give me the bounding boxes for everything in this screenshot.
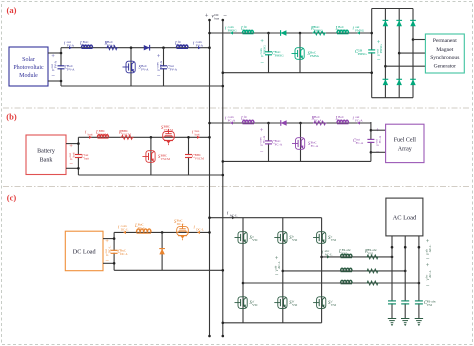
svg-text:batt: batt [71,152,75,157]
transistor S_VSI b top IGBT [278,232,287,244]
diode rectifier bottom 2 [396,79,401,85]
transistor S_VSCM BBC upper IGBT [163,132,175,141]
svg-text:AC-L: AC-L [277,261,281,269]
diode rectifier bottom 3 [410,79,415,85]
capacitor C_FC-A BoC [268,141,270,143]
capacitor C_batt out [78,155,80,157]
wire FC top rail [210,122,371,124]
wire phase b line [282,270,285,273]
capacitor C_FC-A out [370,140,372,142]
wire battery cap leg [188,137,190,175]
label i_AC-L [227,212,237,218]
wire buck diode leg [161,231,164,234]
inductor L_FC-A BoC [337,120,349,123]
wire PMSG phase c tap [384,65,387,68]
svg-text:VSCM: VSCM [99,132,108,136]
wire DC load bottom terminal [103,262,114,264]
wire battery switch leg [150,136,153,139]
svg-text:PV-A: PV-A [196,43,204,47]
svg-text:Array: Array [398,147,412,153]
wire battery top terminal [66,143,78,145]
wire rectifier top bar [372,8,413,10]
resistor R_PMSG BoC [313,31,327,35]
box Permanent Magnet Synchronous Generator [425,34,464,73]
transistor S_PMSG BoC IGBT [295,48,304,60]
svg-text:+: + [157,53,161,60]
svg-text:FC-A: FC-A [244,118,252,122]
diode PV boost [144,45,150,50]
wire inverter leg c [321,218,323,323]
wire AC load column a [391,236,393,319]
svg-text:−: − [426,283,430,290]
capacitor C_PV-A out [163,66,165,68]
wire rectifier leg 1 [384,9,386,98]
svg-text:bus: bus [214,16,219,20]
inductor L_PV-A fil [177,45,189,48]
label i_batt bus [192,129,200,137]
svg-text:−: − [275,272,279,279]
inductor L_VSCM BBC [98,135,109,138]
svg-text:FC-A: FC-A [262,135,266,143]
svg-text:Solar: Solar [22,57,35,63]
wire FC box bottom terminal [371,151,386,153]
transistor S_VSI b' bottom IGBT [278,297,287,309]
wire DC load input column [113,232,115,270]
box AC Load [386,198,423,236]
svg-text:+: + [205,13,209,20]
capacitor C_PMSG GB [371,50,373,52]
wire inverter leg b [282,218,284,323]
svg-text:DC-L: DC-L [107,246,111,254]
wire inverter top rail [210,217,322,219]
label i_DC-L conv [118,224,128,232]
transistor S_VSI c' bottom IGBT [317,297,326,309]
svg-text:PMSG: PMSG [244,28,254,32]
svg-text:−: − [260,60,264,67]
svg-text:FC-A: FC-A [228,118,236,122]
wire battery bottom terminal [66,167,78,169]
svg-text:Bank: Bank [40,158,53,164]
svg-text:VSI: VSI [331,303,336,307]
resistor R_PV-A BoC [106,46,118,50]
svg-text:FC-A: FC-A [311,144,319,148]
wire FC bottom rail [223,160,371,162]
label C_VSI Fil-abc [424,299,437,307]
svg-text:+: + [105,238,109,245]
transistor S_DC-L BuC IGBT [177,227,189,236]
inductor L_PV-A BoC [82,45,93,48]
svg-text:VSCM: VSCM [164,128,173,132]
svg-text:AC-L: AC-L [230,213,238,217]
svg-text:+: + [275,255,279,262]
svg-text:−: − [69,161,73,168]
svg-text:FC-A: FC-A [314,118,322,122]
node DC bus positive rail [209,20,211,336]
transistor S_VSI c top IGBT [317,232,326,244]
label R_VSI Fil-abc [364,248,378,256]
svg-text:VSI: VSI [252,303,257,307]
svg-text:PMSG: PMSG [338,28,348,32]
diode rectifier top 3 [410,20,415,26]
wire PV bottom rail [61,85,223,87]
transistor S_VSI a' bottom IGBT [238,297,247,309]
svg-text:DC-L: DC-L [120,252,128,256]
wire AC load column c [418,236,420,319]
svg-text:PV-A: PV-A [178,43,186,47]
resistor R_VSCM BBC [121,135,134,139]
svg-text:VSI: VSI [342,251,347,255]
svg-text:DC-L: DC-L [121,227,129,231]
svg-text:AC-L: AC-L [428,270,432,278]
label L_VSI Fil-abc [338,248,352,256]
svg-text:FC-A: FC-A [338,118,346,122]
svg-text:(a): (a) [7,5,17,15]
svg-text:−: − [51,73,55,80]
svg-text:VSCM: VSCM [122,132,131,136]
svg-text:PV-A: PV-A [159,60,163,68]
wire PV switch leg [130,46,133,49]
wire PMSG conv cap leg [267,32,270,35]
wire PV input column [60,48,62,86]
svg-text:FC-A: FC-A [355,118,363,122]
label i_FC-A conv [225,115,236,123]
box DC Load [65,231,103,271]
wire PV box top terminal [48,52,61,54]
svg-text:PV-A: PV-A [107,43,115,47]
svg-text:Battery: Battery [37,149,55,155]
svg-text:+: + [260,38,264,45]
label i_batt [85,131,93,137]
svg-text:DC-L: DC-L [177,222,185,226]
label i_FC-A out [353,115,364,123]
box Battery Bank [26,135,66,175]
wire rectifier bottom bar [372,97,413,99]
capacitor C_PV-A input with label [60,66,62,68]
svg-text:PMSG: PMSG [262,45,266,55]
wire inverter bottom rail [223,322,322,324]
resistor R_FC-A BoC [313,121,327,125]
wire rectifier left column [371,9,373,98]
svg-text:PMSG: PMSG [310,54,320,58]
resistor R_VSI fil phase a [366,255,379,259]
svg-text:AC-L: AC-L [325,252,333,256]
resistor R_VSI fil phase c [366,281,379,285]
svg-text:PV-A: PV-A [170,67,178,71]
svg-text:AC Load: AC Load [393,215,417,222]
label i_PMSG out [353,25,365,33]
label i_PV-A out [64,40,75,48]
wire PMSG phase a tap [412,38,415,41]
wire battery top rail [78,136,209,138]
wire PMSG bottom rail [223,72,372,74]
svg-text:PMSG: PMSG [314,28,324,32]
diode rectifier top 2 [396,20,401,26]
svg-text:−: − [377,57,381,64]
inductor L_PMSG BoC [337,30,349,33]
svg-text:+: + [426,238,430,245]
capacitor C_VSI filter b [404,301,406,303]
svg-text:+: + [51,53,55,60]
transistor S_VSCM BBC lower IGBT [146,151,155,163]
svg-text:−: − [223,13,227,20]
wire FC input column [370,122,372,161]
svg-text:DC-L: DC-L [196,227,204,231]
svg-text:VSI: VSI [292,303,297,307]
svg-text:VSI: VSI [331,238,336,242]
svg-text:batt: batt [84,156,89,160]
svg-text:VSI: VSI [292,238,297,242]
wire rectifier leg 3 [412,9,414,98]
wire PMSG switch leg [299,32,302,35]
capacitor C_VSCM BBC [188,155,190,157]
inductor L_VSI fil phase b [341,268,352,271]
label i_PMSG conv [225,25,237,33]
inductor L_PMSG fil [243,30,254,33]
svg-text:PV-A: PV-A [53,60,57,68]
inductor L_VSI fil phase a [341,254,352,257]
wire DC load top rail [114,231,209,233]
wire battery input column [77,137,79,175]
svg-text:Module: Module [19,73,38,79]
svg-text:Magnet: Magnet [436,47,454,53]
section separator a/b [3,107,471,109]
transistor S_FC-A BoC IGBT [296,138,305,150]
svg-text:PMSG: PMSG [379,44,383,54]
wire phase c line [242,282,245,285]
box Fuel Cell Array [386,124,424,162]
svg-text:PMSG: PMSG [358,52,368,56]
inductor L_DC-L BuC [137,229,152,232]
capacitor C_VSI filter a [391,301,393,303]
ground phase a [388,318,396,320]
svg-text:PV-A: PV-A [83,43,91,47]
capacitor C_PMSG BoC [268,52,270,54]
node DC bus negative rail [222,20,224,336]
ground phase c [415,318,423,320]
inductor L_FC-A fil [243,120,255,123]
diode rectifier bottom 1 [383,79,388,85]
wire PV top rail [61,47,210,49]
svg-text:VSCM: VSCM [195,156,204,160]
wire FC box top terminal [371,129,386,131]
svg-text:FC-A: FC-A [356,141,364,145]
svg-text:FC-A: FC-A [378,135,382,143]
section separator b/c [3,186,471,188]
wire PV box bottom terminal [48,80,61,82]
wire PMSG phase b tap [398,52,401,55]
diode DC-L freewheel [159,249,164,255]
ground phase b [401,318,409,320]
svg-text:Permanent: Permanent [433,38,457,44]
inductor L_VSI fil phase c [341,280,352,283]
label i_AC-L abc [322,249,332,257]
wire DC load bottom rail [114,269,223,271]
svg-text:+: + [260,127,264,134]
wire PV output cap leg [162,46,165,49]
wire PMSG top rail [210,32,372,34]
svg-text:Photovoltaic: Photovoltaic [13,65,44,71]
svg-text:−: − [157,73,161,80]
svg-text:PV-A: PV-A [141,67,149,71]
svg-text:VSCM: VSCM [161,157,170,161]
diode rectifier top 1 [383,20,388,26]
svg-text:+: + [69,143,73,150]
svg-text:PV-A: PV-A [67,43,75,47]
wire DC load top terminal [103,238,114,240]
svg-text:−: − [105,258,109,265]
svg-text:−: − [260,149,264,156]
capacitor C_VSI filter c [418,301,420,303]
label i_DC-L [194,226,204,232]
diode FC boost [281,120,287,125]
wire phase a line [320,256,323,259]
wire rectifier leg 2 [398,9,400,98]
resistor R_VSI fil phase b [366,269,379,273]
svg-text:(b): (b) [6,112,17,122]
svg-text:DC Load: DC Load [73,249,97,256]
svg-text:VSI: VSI [252,238,257,242]
diode PMSG boost [281,30,287,35]
wire FC switch leg [299,122,302,125]
svg-text:DC-L: DC-L [138,226,146,230]
label i_PV-A conv [193,40,204,48]
svg-text:+: + [426,262,430,269]
svg-text:Synchronous: Synchronous [430,55,459,61]
wire AC load column b [404,236,406,319]
capacitor C_DC-L BuC [113,251,115,253]
svg-text:batt: batt [88,132,93,136]
svg-text:Generator: Generator [434,63,456,69]
svg-text:VSI: VSI [368,251,373,255]
svg-text:(c): (c) [7,193,17,203]
wire battery bottom rail [78,174,222,176]
svg-text:AC-L: AC-L [428,245,432,253]
transistor S_VSI a top IGBT [238,232,247,244]
svg-text:PV-A: PV-A [67,67,75,71]
wire FC conv cap leg [267,122,270,125]
svg-text:VSI: VSI [427,303,432,307]
wire inverter leg a [242,218,244,323]
svg-text:FC-A: FC-A [275,142,283,146]
box Solar Photovoltaic Module [9,47,48,86]
svg-text:Fuel Cell: Fuel Cell [394,138,416,144]
svg-text:PMSG: PMSG [275,53,285,57]
transistor S_PV-A BoC IGBT [126,61,135,73]
